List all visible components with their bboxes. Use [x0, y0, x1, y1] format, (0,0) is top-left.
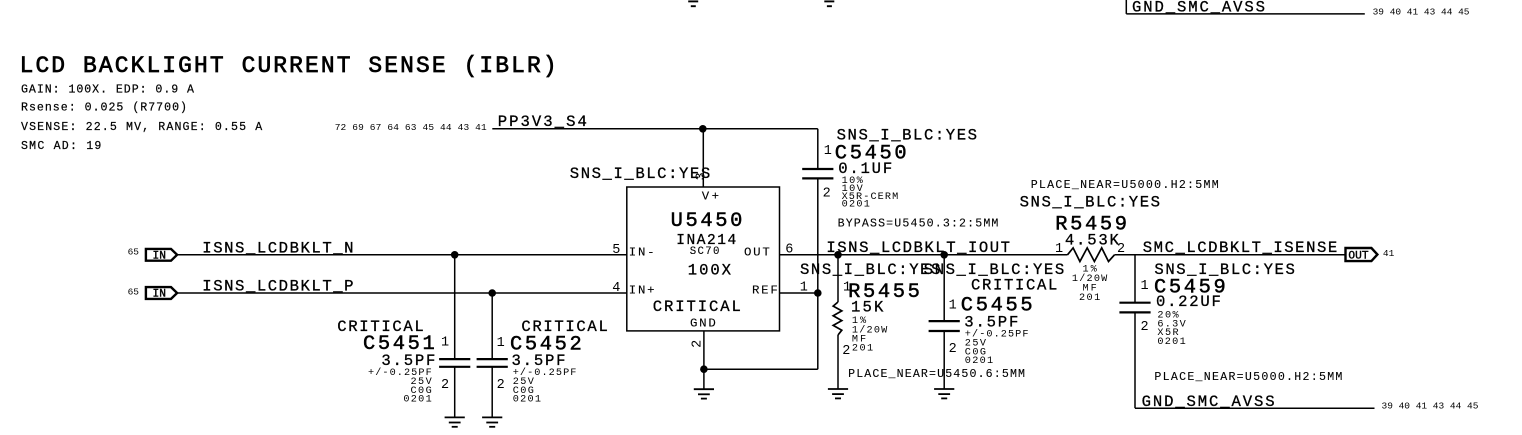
wire PP3V3_S4 [492, 128, 818, 130]
svg-text:1: 1 [1055, 242, 1063, 257]
wire ISNS_LCDBKLT_P [177, 292, 627, 294]
svg-text:IN+: IN+ [629, 284, 655, 298]
svg-text:0201: 0201 [965, 356, 993, 367]
svg-text:REF: REF [752, 283, 778, 297]
svg-text:Rsense: 0.025 (R7700): Rsense: 0.025 (R7700) [21, 102, 187, 115]
svg-text:SNS_I_BLC:YES: SNS_I_BLC:YES [570, 165, 710, 183]
svg-text:SNS_I_BLC:YES: SNS_I_BLC:YES [1020, 193, 1160, 211]
svg-text:SNS_I_BLC:YES: SNS_I_BLC:YES [800, 261, 940, 279]
svg-text:1: 1 [949, 299, 957, 314]
svg-text:0.1UF: 0.1UF [838, 160, 892, 178]
svg-text:1: 1 [824, 144, 832, 159]
svg-text:ISNS_LCDBKLT_IOUT: ISNS_LCDBKLT_IOUT [826, 239, 1010, 257]
ground (C5451) [445, 416, 465, 418]
svg-text:CRITICAL: CRITICAL [653, 298, 741, 316]
svg-text:IN-: IN- [629, 246, 655, 260]
net GND_SMC_AVSS (bottom): wire [1135, 407, 1375, 409]
resistor R5459: zigzag [1068, 248, 1115, 262]
svg-text:1: 1 [441, 335, 449, 350]
svg-text:201: 201 [1079, 293, 1100, 304]
svg-text:V+: V+ [702, 190, 719, 204]
port IN (ISNS_LCDBKLT_P) [146, 287, 177, 299]
ground (partial, top edge right) [824, 0, 834, 2]
svg-text:GND: GND [690, 316, 716, 330]
capacitor C5452: wire [491, 293, 493, 359]
svg-text:3: 3 [694, 172, 709, 180]
svg-text:PLACE_NEAR=U5450.6:5MM: PLACE_NEAR=U5450.6:5MM [848, 368, 1025, 381]
svg-text:GND_SMC_AVSS: GND_SMC_AVSS [1142, 393, 1275, 411]
op-amp U5450 (INA214) body [627, 187, 780, 331]
capacitor C5459: plates [1119, 302, 1150, 304]
svg-text:2: 2 [1141, 320, 1149, 335]
svg-text:SMC_LCDBKLT_ISENSE: SMC_LCDBKLT_ISENSE [1143, 239, 1337, 257]
svg-text:15K: 15K [851, 299, 884, 317]
ground (R5455) [828, 388, 848, 390]
svg-text:OUT: OUT [744, 246, 770, 260]
junction C5452 [488, 289, 496, 297]
svg-text:CRITICAL: CRITICAL [971, 277, 1057, 295]
capacitor C5455: wires [943, 255, 945, 321]
svg-text:0201: 0201 [403, 395, 431, 406]
ground (partial, top edge left) [688, 0, 698, 2]
svg-text:1: 1 [1141, 279, 1149, 294]
resistor R5455: zigzag [833, 302, 842, 335]
capacitor C5451: plates [439, 358, 470, 360]
svg-text:65: 65 [128, 247, 140, 258]
svg-text:LCD BACKLIGHT CURRENT SENSE (I: LCD BACKLIGHT CURRENT SENSE (IBLR) [20, 53, 557, 79]
svg-text:39 40 41 43 44 45: 39 40 41 43 44 45 [1382, 401, 1479, 412]
capacitor C5459: wires [1134, 255, 1136, 303]
svg-text:2: 2 [842, 344, 850, 359]
svg-text:0201: 0201 [513, 395, 541, 406]
wire ISNS_LCDBKLT_IOUT (OUT pin to R5459) [780, 254, 1068, 256]
svg-text:ISNS_LCDBKLT_N: ISNS_LCDBKLT_N [202, 239, 353, 257]
svg-text:2: 2 [441, 378, 449, 393]
svg-text:GND_SMC_AVSS: GND_SMC_AVSS [1132, 0, 1265, 17]
svg-text:SMC AD: 19: SMC AD: 19 [21, 140, 101, 153]
wire SMC_LCDBKLT_ISENSE [1115, 254, 1346, 256]
junction R5455 [834, 251, 842, 259]
capacitor C5450: wires [817, 129, 819, 169]
svg-text:0201: 0201 [842, 200, 870, 211]
svg-text:GAIN: 100X. EDP: 0.9 A: GAIN: 100X. EDP: 0.9 A [21, 83, 194, 96]
svg-text:IN: IN [153, 289, 166, 301]
wire REF return [704, 368, 818, 370]
junction C5455 [940, 251, 948, 259]
ground (C5452) [482, 416, 502, 418]
svg-text:ISNS_LCDBKLT_P: ISNS_LCDBKLT_P [202, 277, 353, 295]
wire ISNS_LCDBKLT_N [177, 254, 627, 256]
svg-text:OUT: OUT [1348, 250, 1368, 262]
ground (C5455) [934, 388, 954, 390]
svg-text:0201: 0201 [1157, 337, 1185, 348]
svg-text:IN: IN [153, 251, 166, 263]
svg-text:PLACE_NEAR=U5000.H2:5MM: PLACE_NEAR=U5000.H2:5MM [1154, 371, 1342, 384]
svg-text:65: 65 [128, 287, 140, 298]
capacitor C5455: plates [929, 320, 960, 322]
junction GND/REF return [700, 365, 708, 373]
svg-text:2: 2 [823, 187, 831, 202]
junction REF/C5450 [814, 289, 822, 297]
svg-text:2: 2 [497, 378, 505, 393]
port IN (ISNS_LCDBKLT_N) [146, 249, 177, 261]
port OUT (SMC_LCDBKLT_ISENSE) [1346, 248, 1378, 261]
wire GND pin of U5450 [703, 331, 705, 389]
junction on PP3V3_S4 at V+ [699, 125, 707, 133]
svg-text:VSENSE: 22.5 MV, RANGE: 0.55 A: VSENSE: 22.5 MV, RANGE: 0.55 A [21, 121, 262, 134]
svg-text:PLACE_NEAR=U5000.H2:5MM: PLACE_NEAR=U5000.H2:5MM [1031, 179, 1219, 192]
svg-text:BYPASS=U5450.3:2:5MM: BYPASS=U5450.3:2:5MM [838, 218, 999, 231]
capacitor C5450: plates [802, 168, 833, 170]
svg-text:100X: 100X [688, 262, 732, 280]
svg-text:5: 5 [612, 243, 620, 258]
svg-text:39 40 41 43 44 45: 39 40 41 43 44 45 [1373, 7, 1470, 18]
capacitor C5451: wire [454, 255, 456, 359]
capacitor C5452: plates [477, 358, 508, 360]
svg-text:201: 201 [852, 344, 873, 355]
ground (U5450) [694, 388, 714, 390]
svg-text:1: 1 [497, 336, 505, 351]
svg-text:72 69 67 64 63 45 44 43 41: 72 69 67 64 63 45 44 43 41 [335, 122, 487, 133]
svg-text:2: 2 [949, 342, 957, 357]
net GND_SMC_AVSS (top right): wire [1125, 0, 1127, 14]
svg-text:U5450: U5450 [671, 210, 743, 233]
svg-text:SC70: SC70 [690, 246, 720, 258]
wire V+ [702, 129, 704, 187]
svg-text:41: 41 [1383, 248, 1395, 259]
resistor R5455: wires [837, 255, 839, 302]
junction C5451 [451, 251, 459, 259]
wire REF pin [780, 292, 818, 294]
